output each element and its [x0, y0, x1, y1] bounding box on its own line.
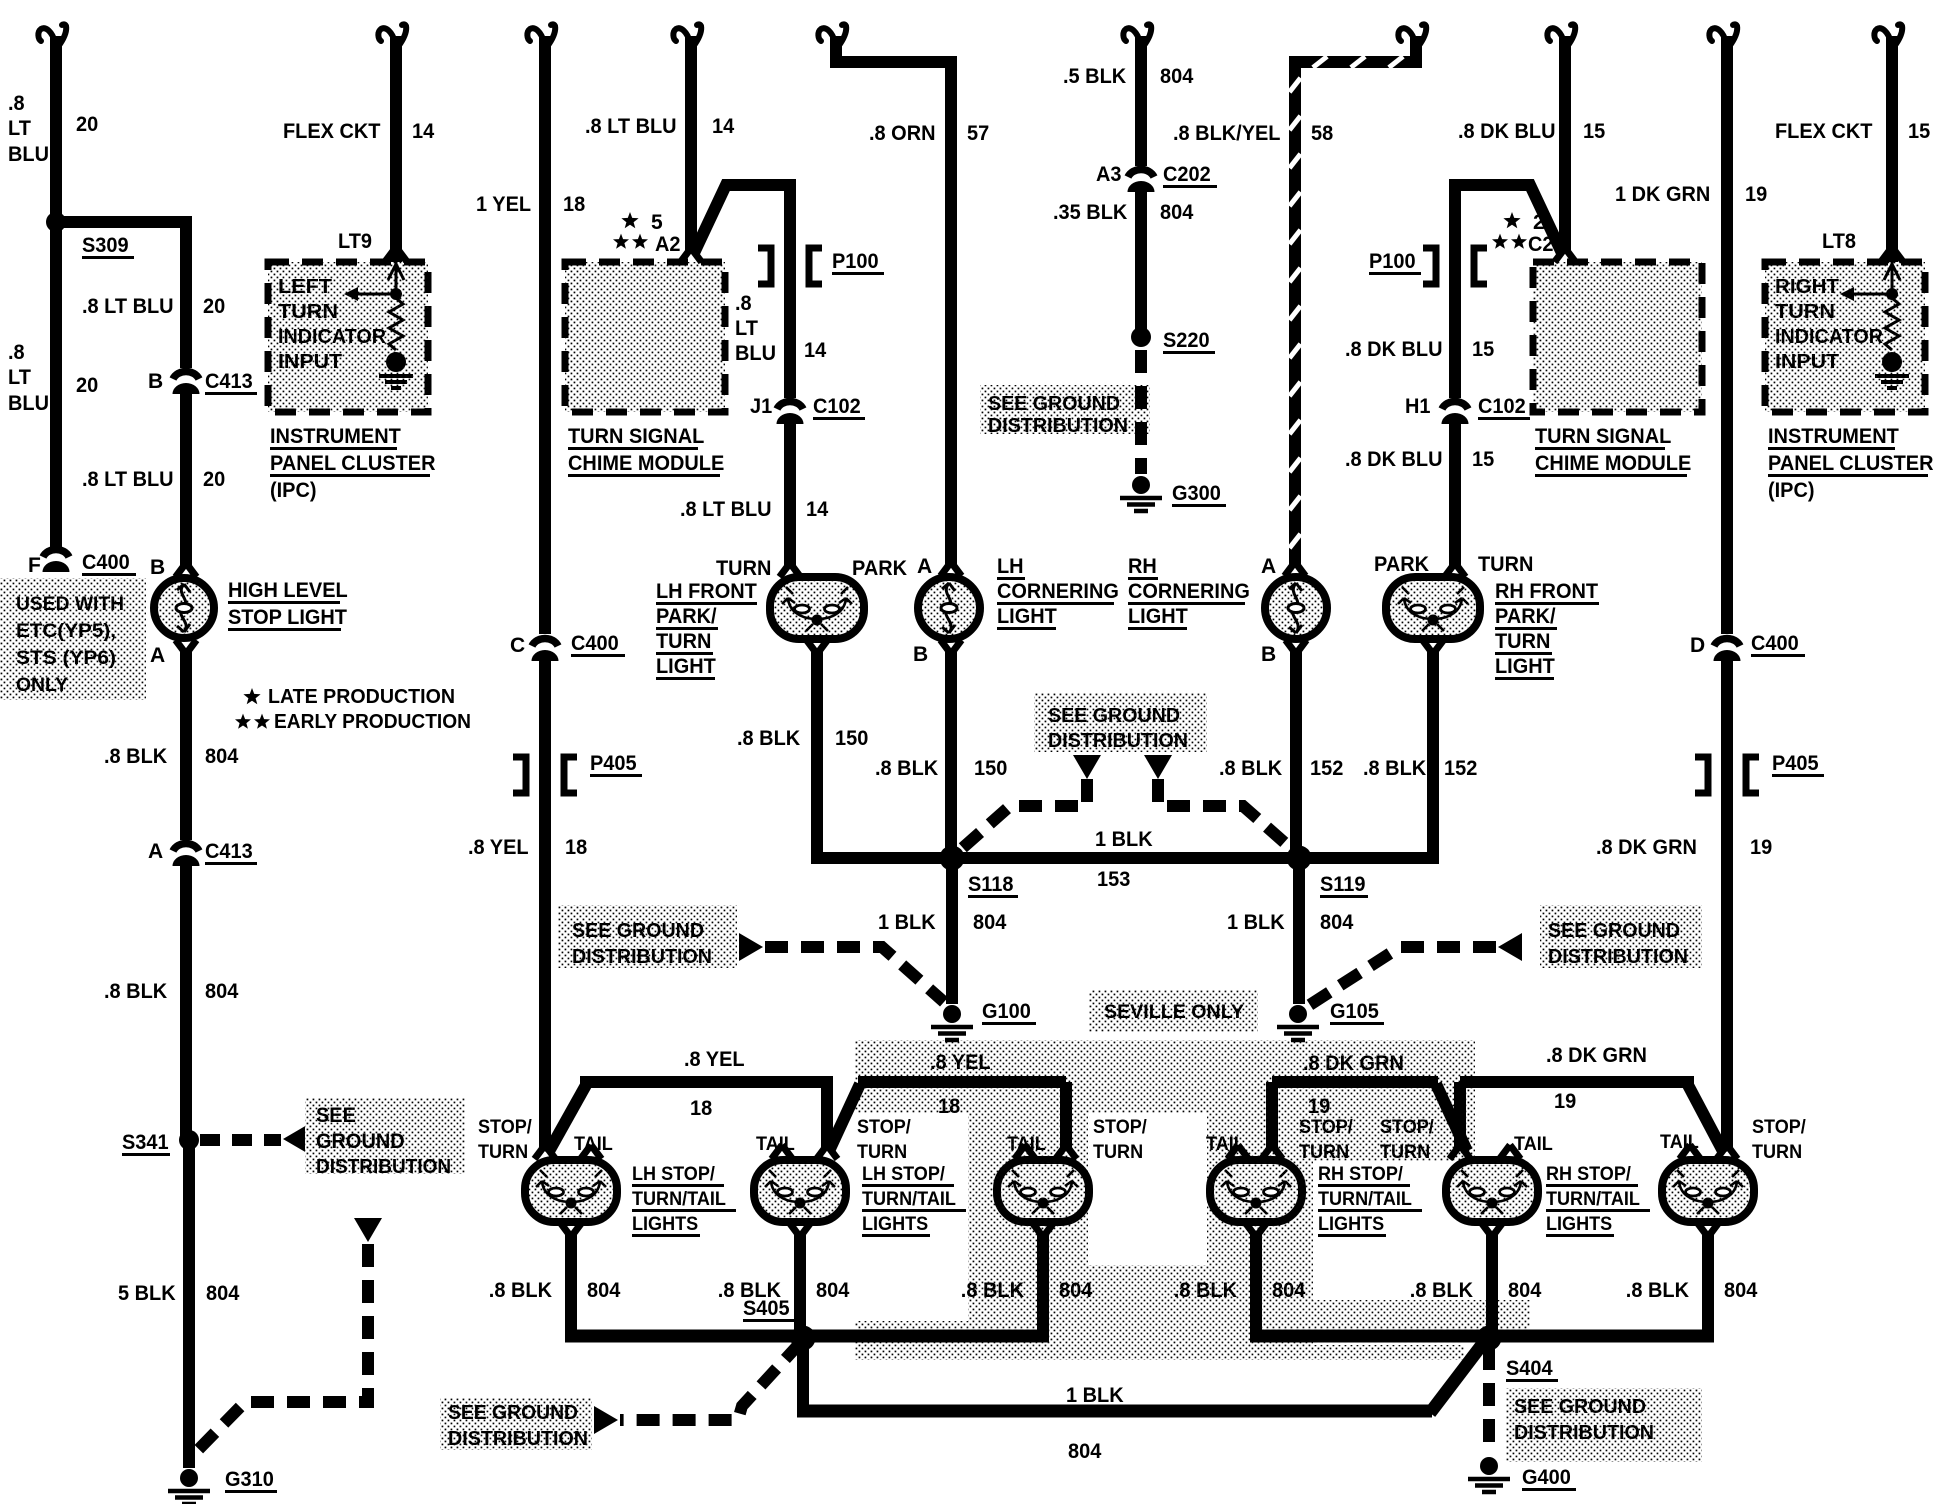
svg-text:1 BLK: 1 BLK — [1095, 828, 1153, 851]
svg-text:RH: RH — [1128, 555, 1157, 578]
svg-text:SEE GROUND: SEE GROUND — [1048, 705, 1180, 727]
svg-text:C413: C413 — [205, 370, 253, 393]
svg-text:.8 BLK: .8 BLK — [1174, 1279, 1237, 1302]
svg-text:20: 20 — [203, 468, 225, 491]
svg-text:A: A — [148, 840, 163, 863]
svg-text:.8 BLK: .8 BLK — [1219, 757, 1282, 780]
svg-text:STOP/: STOP/ — [857, 1117, 911, 1138]
svg-text:20: 20 — [76, 374, 98, 397]
svg-text:SEE GROUND: SEE GROUND — [1548, 920, 1680, 942]
svg-text:804: 804 — [205, 980, 239, 1003]
svg-text:152: 152 — [1310, 757, 1343, 780]
svg-text:18: 18 — [690, 1097, 713, 1120]
svg-text:STOP LIGHT: STOP LIGHT — [228, 606, 347, 629]
svg-text:RH STOP/: RH STOP/ — [1318, 1164, 1404, 1185]
svg-text:USED WITH: USED WITH — [16, 594, 124, 615]
svg-text:152: 152 — [1444, 757, 1477, 780]
svg-text:14: 14 — [806, 498, 829, 521]
svg-text:20: 20 — [76, 113, 98, 136]
svg-text:S404: S404 — [1506, 1357, 1553, 1380]
svg-text:14: 14 — [412, 120, 435, 143]
svg-text:C400: C400 — [571, 632, 619, 655]
svg-text:SEE GROUND: SEE GROUND — [1514, 1396, 1646, 1418]
svg-text:.8 BLK: .8 BLK — [104, 980, 167, 1003]
svg-text:15: 15 — [1583, 120, 1606, 143]
svg-text:804: 804 — [587, 1279, 621, 1302]
svg-text:C102: C102 — [1478, 395, 1526, 418]
svg-text:LIGHT: LIGHT — [1128, 605, 1188, 628]
svg-text:GROUND: GROUND — [316, 1130, 405, 1153]
svg-text:804: 804 — [973, 911, 1007, 934]
svg-text:TAIL: TAIL — [574, 1134, 613, 1155]
svg-text:INDICATOR: INDICATOR — [278, 326, 387, 348]
svg-text:18: 18 — [565, 836, 588, 859]
svg-text:20: 20 — [203, 295, 225, 318]
svg-text:S341: S341 — [122, 1131, 169, 1154]
svg-text:804: 804 — [205, 745, 239, 768]
svg-text:STOP/: STOP/ — [478, 1117, 532, 1138]
svg-text:G310: G310 — [225, 1468, 274, 1491]
svg-text:804: 804 — [1320, 911, 1354, 934]
svg-text:LIGHTS: LIGHTS — [862, 1214, 928, 1235]
svg-text:LIGHT: LIGHT — [1495, 655, 1555, 678]
svg-text:TURN: TURN — [857, 1142, 907, 1163]
svg-text:DISTRIBUTION: DISTRIBUTION — [316, 1156, 451, 1178]
svg-text:LH FRONT: LH FRONT — [656, 580, 757, 603]
svg-text:1 BLK: 1 BLK — [1227, 911, 1285, 934]
svg-text:STOP/: STOP/ — [1380, 1117, 1434, 1138]
svg-text:S309: S309 — [82, 234, 129, 257]
svg-text:LEFT: LEFT — [278, 276, 332, 298]
svg-text:.35 BLK: .35 BLK — [1053, 201, 1127, 224]
svg-text:A: A — [1261, 555, 1276, 578]
svg-text:.5 BLK: .5 BLK — [1063, 65, 1126, 88]
svg-text:TURN/TAIL: TURN/TAIL — [1546, 1189, 1640, 1210]
svg-text:TURN: TURN — [1752, 1142, 1802, 1163]
svg-text:18: 18 — [563, 193, 586, 216]
svg-text:STOP/: STOP/ — [1093, 1117, 1147, 1138]
svg-text:STOP/: STOP/ — [1752, 1117, 1806, 1138]
svg-text:P100: P100 — [1369, 250, 1416, 273]
svg-text:TURN: TURN — [656, 630, 711, 653]
svg-text:.8 BLK: .8 BLK — [1626, 1279, 1689, 1302]
svg-text:19: 19 — [1308, 1095, 1330, 1118]
svg-text:STS (YP6): STS (YP6) — [16, 648, 116, 669]
svg-text:.8 LT BLU: .8 LT BLU — [82, 295, 174, 318]
svg-text:S220: S220 — [1163, 329, 1210, 352]
svg-text:15: 15 — [1472, 338, 1495, 361]
svg-text:A3: A3 — [1096, 163, 1122, 186]
svg-text:EARLY PRODUCTION: EARLY PRODUCTION — [274, 711, 471, 733]
svg-text:.8 BLK: .8 BLK — [1410, 1279, 1473, 1302]
svg-text:804: 804 — [1508, 1279, 1542, 1302]
svg-text:LT: LT — [735, 317, 758, 340]
svg-text:G100: G100 — [982, 1000, 1031, 1023]
svg-text:A: A — [150, 644, 165, 667]
svg-text:19: 19 — [1554, 1090, 1576, 1113]
svg-text:SEE GROUND: SEE GROUND — [988, 393, 1120, 415]
svg-text:19: 19 — [1745, 183, 1767, 206]
svg-text:LIGHTS: LIGHTS — [1318, 1214, 1384, 1235]
svg-text:S405: S405 — [743, 1297, 790, 1320]
svg-text:G400: G400 — [1522, 1466, 1571, 1489]
svg-text:S118: S118 — [968, 873, 1014, 896]
svg-text:.8 BLK: .8 BLK — [875, 757, 938, 780]
svg-text:A2: A2 — [655, 233, 681, 256]
svg-text:LT: LT — [8, 117, 31, 140]
svg-text:F: F — [28, 554, 41, 577]
svg-text:LT8: LT8 — [1822, 230, 1856, 253]
svg-text:(IPC): (IPC) — [270, 479, 317, 502]
svg-text:804: 804 — [1724, 1279, 1758, 1302]
svg-text:BLU: BLU — [735, 342, 776, 365]
svg-text:TURN: TURN — [716, 557, 771, 580]
svg-text:S119: S119 — [1320, 873, 1366, 896]
svg-text:14: 14 — [712, 115, 735, 138]
svg-text:DISTRIBUTION: DISTRIBUTION — [1048, 730, 1188, 752]
svg-text:SEE GROUND: SEE GROUND — [448, 1402, 578, 1424]
svg-text:SEE: SEE — [316, 1104, 356, 1127]
svg-text:PANEL CLUSTER: PANEL CLUSTER — [270, 452, 436, 475]
svg-text:ONLY: ONLY — [16, 675, 68, 696]
svg-text:.8 YEL: .8 YEL — [930, 1051, 991, 1074]
svg-text:C: C — [510, 634, 525, 657]
svg-text:H1: H1 — [1405, 395, 1431, 418]
svg-text:P100: P100 — [832, 250, 879, 273]
svg-text:TAIL: TAIL — [1007, 1134, 1046, 1155]
svg-text:804: 804 — [1160, 201, 1194, 224]
svg-text:15: 15 — [1908, 120, 1931, 143]
svg-text:.8 YEL: .8 YEL — [684, 1048, 745, 1071]
svg-text:J1: J1 — [750, 395, 773, 418]
svg-text:TURN/TAIL: TURN/TAIL — [1318, 1189, 1412, 1210]
svg-text:(IPC): (IPC) — [1768, 479, 1815, 502]
svg-text:CHIME MODULE: CHIME MODULE — [1535, 452, 1691, 475]
svg-text:BLU: BLU — [8, 143, 49, 166]
svg-text:150: 150 — [835, 727, 868, 750]
svg-text:804: 804 — [1160, 65, 1194, 88]
svg-text:BLU: BLU — [8, 392, 49, 415]
svg-text:LT: LT — [8, 366, 31, 389]
svg-text:PARK: PARK — [852, 557, 907, 580]
svg-text:.8: .8 — [8, 92, 25, 115]
svg-text:FLEX CKT: FLEX CKT — [1775, 120, 1873, 143]
svg-text:DISTRIBUTION: DISTRIBUTION — [572, 946, 712, 968]
svg-text:TURN: TURN — [1495, 630, 1550, 653]
svg-text:1 YEL: 1 YEL — [476, 193, 531, 216]
svg-text:LIGHT: LIGHT — [997, 605, 1057, 628]
svg-text:RH STOP/: RH STOP/ — [1546, 1164, 1632, 1185]
svg-text:INDICATOR: INDICATOR — [1775, 326, 1884, 348]
svg-text:.8 BLK: .8 BLK — [104, 745, 167, 768]
svg-text:153: 153 — [1097, 868, 1130, 891]
svg-text:TURN: TURN — [278, 301, 338, 323]
svg-text:INSTRUMENT: INSTRUMENT — [270, 425, 401, 448]
svg-text:18: 18 — [938, 1095, 961, 1118]
svg-text:LT9: LT9 — [338, 230, 372, 253]
svg-text:TURN SIGNAL: TURN SIGNAL — [568, 425, 704, 448]
svg-text:TURN: TURN — [1478, 553, 1533, 576]
svg-text:SEVILLE ONLY: SEVILLE ONLY — [1104, 1002, 1244, 1023]
svg-text:14: 14 — [804, 339, 827, 362]
svg-text:TAIL: TAIL — [1660, 1132, 1699, 1153]
svg-text:RIGHT: RIGHT — [1775, 276, 1839, 298]
svg-text:TURN: TURN — [478, 1142, 528, 1163]
svg-text:TURN/TAIL: TURN/TAIL — [632, 1189, 726, 1210]
svg-text:LH STOP/: LH STOP/ — [862, 1164, 946, 1185]
svg-text:.8 YEL: .8 YEL — [468, 836, 529, 859]
svg-text:.8 BLK: .8 BLK — [961, 1279, 1024, 1302]
svg-text:804: 804 — [1059, 1279, 1093, 1302]
svg-text:804: 804 — [816, 1279, 850, 1302]
svg-text:B: B — [1261, 643, 1276, 666]
svg-text:.8 BLK/YEL: .8 BLK/YEL — [1173, 122, 1281, 145]
svg-text:LH STOP/: LH STOP/ — [632, 1164, 716, 1185]
svg-text:TAIL: TAIL — [1514, 1134, 1553, 1155]
svg-text:C400: C400 — [1751, 632, 1799, 655]
svg-text:STOP/: STOP/ — [1299, 1117, 1353, 1138]
svg-text:.8: .8 — [735, 292, 752, 315]
svg-text:1 BLK: 1 BLK — [1066, 1384, 1124, 1407]
svg-text:150: 150 — [974, 757, 1007, 780]
svg-text:LIGHT: LIGHT — [656, 655, 716, 678]
svg-text:.8 DK BLU: .8 DK BLU — [1458, 120, 1556, 143]
svg-text:P405: P405 — [590, 752, 637, 775]
svg-text:PARK/: PARK/ — [1495, 605, 1556, 628]
svg-text:58: 58 — [1311, 122, 1334, 145]
svg-text:B: B — [150, 556, 165, 579]
svg-text:CHIME MODULE: CHIME MODULE — [568, 452, 724, 475]
svg-text:C413: C413 — [205, 840, 253, 863]
svg-text:TURN: TURN — [1380, 1142, 1430, 1163]
svg-text:DISTRIBUTION: DISTRIBUTION — [1548, 946, 1688, 968]
svg-text:.8 DK GRN: .8 DK GRN — [1596, 836, 1697, 859]
svg-text:LH: LH — [997, 555, 1024, 578]
svg-text:TURN SIGNAL: TURN SIGNAL — [1535, 425, 1671, 448]
svg-text:ETC(YP5),: ETC(YP5), — [16, 621, 116, 642]
svg-text:P405: P405 — [1772, 752, 1819, 775]
svg-text:HIGH LEVEL: HIGH LEVEL — [228, 579, 348, 602]
svg-text:B: B — [148, 370, 163, 393]
svg-text:804: 804 — [206, 1282, 240, 1305]
svg-text:1 BLK: 1 BLK — [878, 911, 936, 934]
svg-text:FLEX CKT: FLEX CKT — [283, 120, 381, 143]
svg-text:C202: C202 — [1163, 163, 1211, 186]
svg-text:INPUT: INPUT — [1775, 351, 1839, 373]
svg-text:.8 LT BLU: .8 LT BLU — [82, 468, 174, 491]
svg-text:PANEL CLUSTER: PANEL CLUSTER — [1768, 452, 1934, 475]
svg-text:19: 19 — [1750, 836, 1772, 859]
svg-text:.8 DK BLU: .8 DK BLU — [1345, 338, 1443, 361]
svg-text:TURN: TURN — [1093, 1142, 1143, 1163]
svg-text:.8 DK GRN: .8 DK GRN — [1546, 1044, 1647, 1067]
svg-text:CORNERING: CORNERING — [1128, 580, 1250, 603]
svg-text:.8 ORN: .8 ORN — [869, 122, 936, 145]
svg-text:C400: C400 — [82, 551, 130, 574]
svg-text:DISTRIBUTION: DISTRIBUTION — [448, 1428, 588, 1450]
svg-text:PARK: PARK — [1374, 553, 1429, 576]
svg-text:LIGHTS: LIGHTS — [1546, 1214, 1612, 1235]
svg-text:.8 DK GRN: .8 DK GRN — [1303, 1052, 1404, 1075]
svg-text:G105: G105 — [1330, 1000, 1379, 1023]
svg-text:.8 LT BLU: .8 LT BLU — [585, 115, 677, 138]
svg-text:5 BLK: 5 BLK — [118, 1282, 176, 1305]
svg-text:INSTRUMENT: INSTRUMENT — [1768, 425, 1899, 448]
svg-text:C102: C102 — [813, 395, 861, 418]
svg-text:SEE GROUND: SEE GROUND — [572, 920, 704, 942]
svg-text:PARK/: PARK/ — [656, 605, 717, 628]
svg-text:.8: .8 — [8, 341, 25, 364]
svg-text:.8 BLK: .8 BLK — [1363, 757, 1426, 780]
svg-text:B: B — [913, 643, 928, 666]
svg-text:CORNERING: CORNERING — [997, 580, 1119, 603]
svg-text:INPUT: INPUT — [278, 351, 342, 373]
svg-text:TAIL: TAIL — [1206, 1134, 1245, 1155]
svg-text:TURN: TURN — [1775, 301, 1835, 323]
svg-text:TURN/TAIL: TURN/TAIL — [862, 1189, 956, 1210]
svg-text:G300: G300 — [1172, 482, 1221, 505]
svg-text:TAIL: TAIL — [756, 1134, 795, 1155]
svg-text:LIGHTS: LIGHTS — [632, 1214, 698, 1235]
svg-text:D: D — [1690, 634, 1705, 657]
svg-text:804: 804 — [1068, 1440, 1102, 1463]
svg-text:.8 DK BLU: .8 DK BLU — [1345, 448, 1443, 471]
svg-text:5: 5 — [651, 211, 663, 234]
svg-text:.8 LT BLU: .8 LT BLU — [680, 498, 772, 521]
svg-text:LATE PRODUCTION: LATE PRODUCTION — [268, 686, 455, 708]
svg-text:DISTRIBUTION: DISTRIBUTION — [1514, 1422, 1654, 1444]
svg-text:804: 804 — [1272, 1279, 1306, 1302]
svg-text:A: A — [917, 555, 932, 578]
svg-text:15: 15 — [1472, 448, 1495, 471]
svg-text:.8 BLK: .8 BLK — [489, 1279, 552, 1302]
svg-text:57: 57 — [967, 122, 989, 145]
svg-text:TURN: TURN — [1299, 1142, 1349, 1163]
svg-text:RH FRONT: RH FRONT — [1495, 580, 1598, 603]
svg-text:DISTRIBUTION: DISTRIBUTION — [988, 415, 1128, 437]
svg-text:1 DK GRN: 1 DK GRN — [1615, 183, 1710, 206]
svg-text:.8 BLK: .8 BLK — [737, 727, 800, 750]
